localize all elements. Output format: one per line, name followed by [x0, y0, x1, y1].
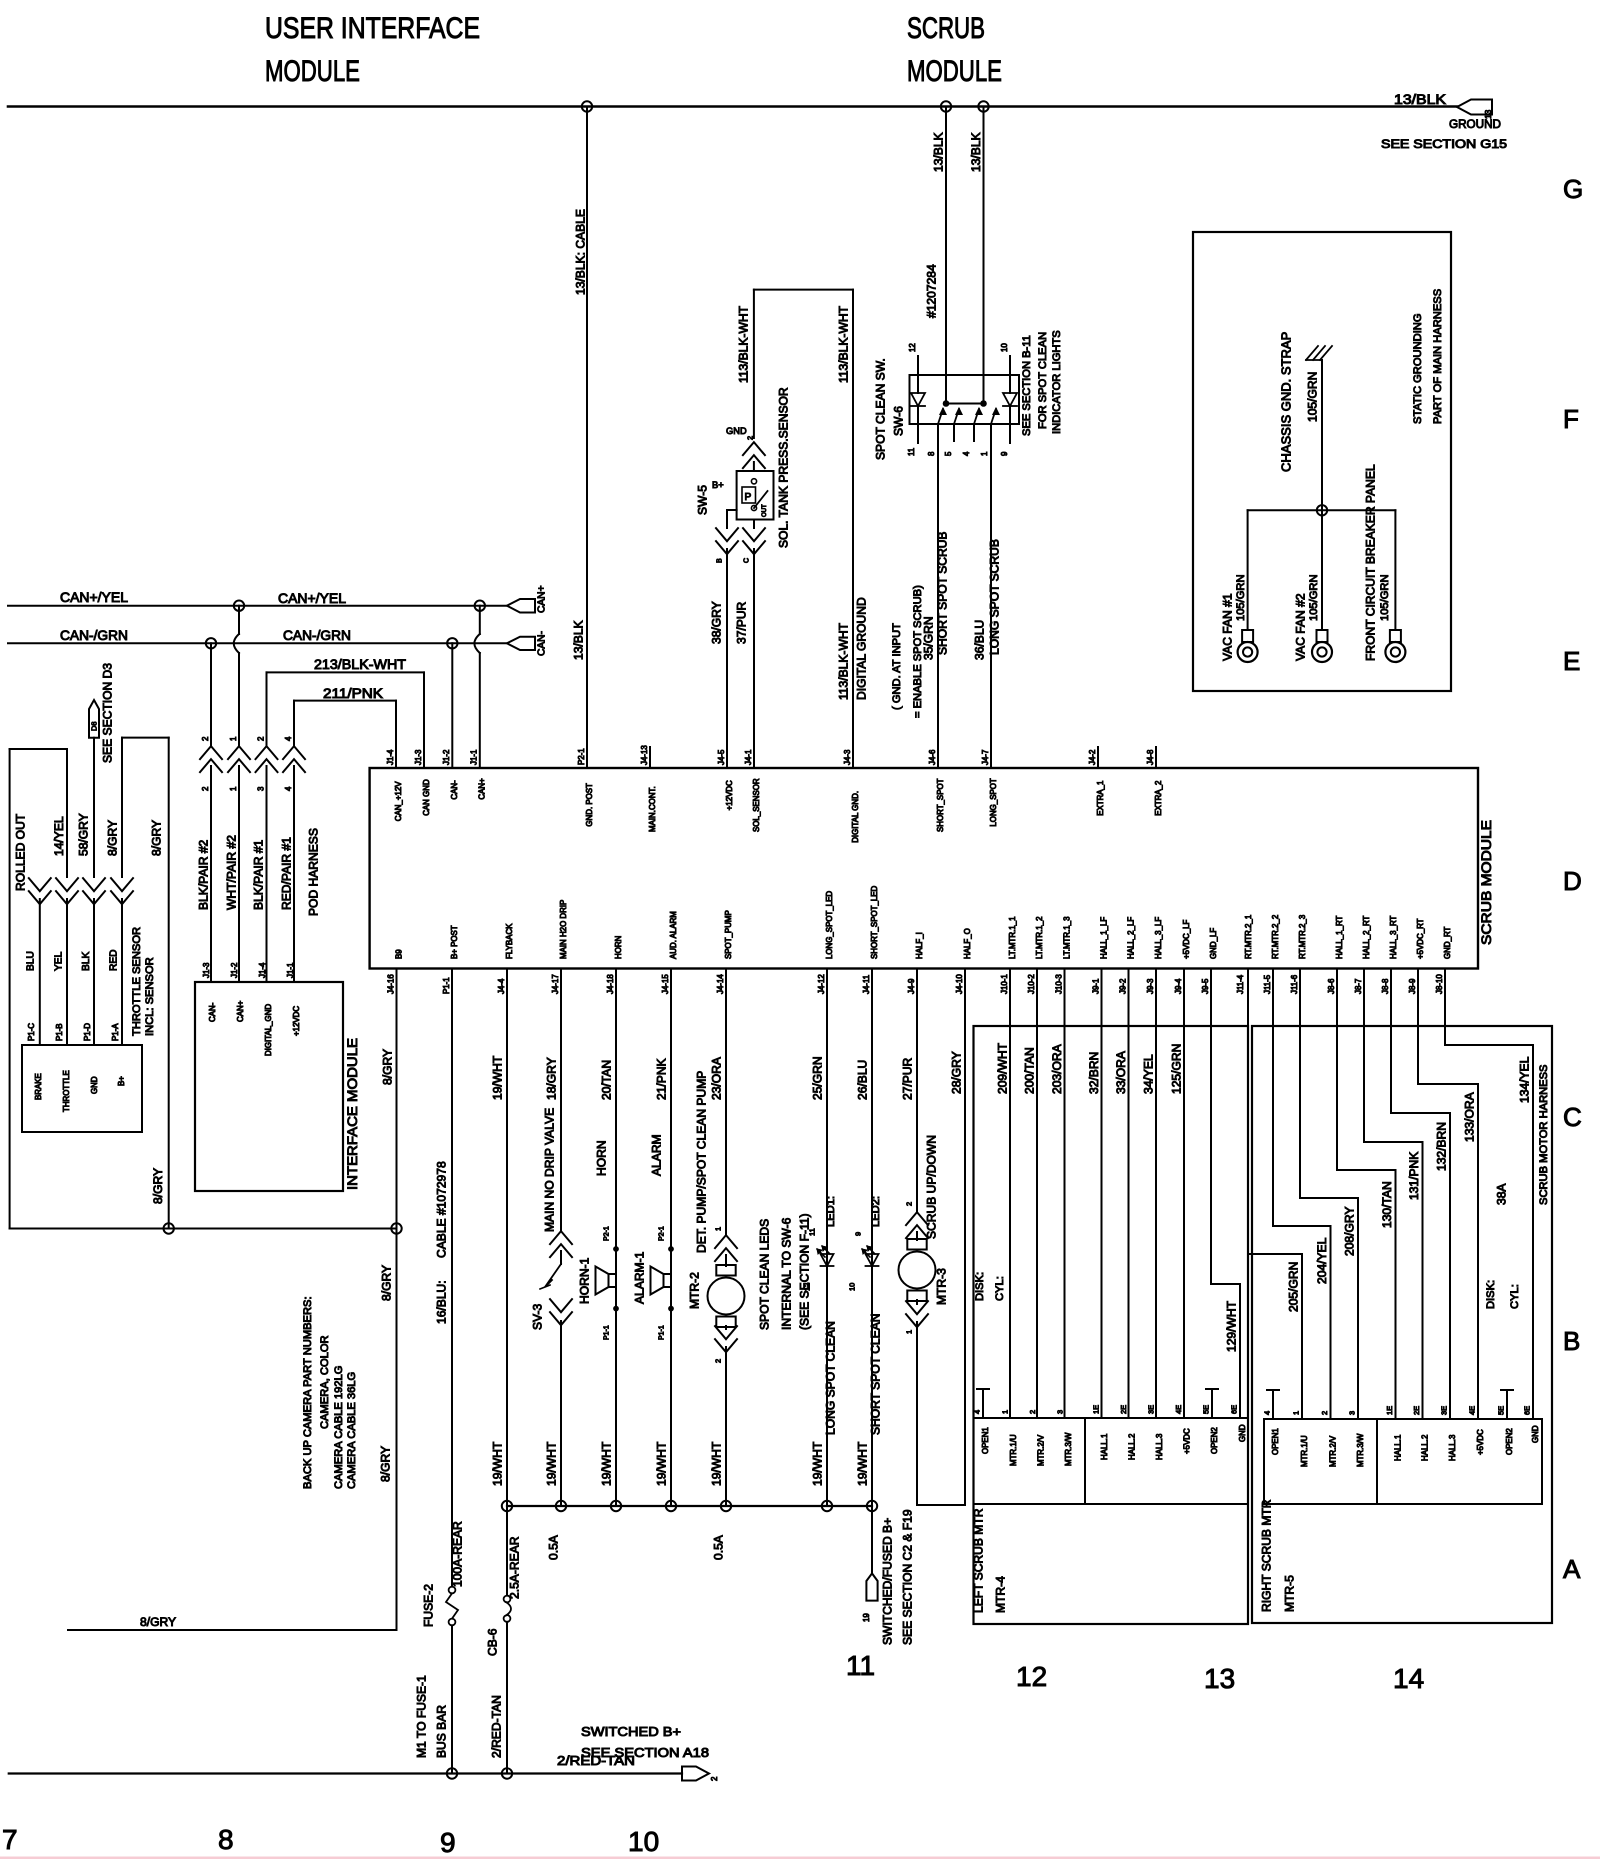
junction fused bus x507: [502, 1501, 512, 1511]
svg-text:SEE SECTION B-11: SEE SECTION B-11: [1021, 335, 1033, 436]
svg-text:CAN-/GRN: CAN-/GRN: [60, 627, 128, 643]
svg-text:SHORT_SPOT_LED: SHORT_SPOT_LED: [870, 885, 879, 959]
junction bottom bus at FUSE-2: [447, 1768, 457, 1778]
wire 37/PUR from SW-5 pin C to J4-1: [734, 520, 765, 769]
svg-text:13/BLK: 13/BLK: [571, 620, 585, 660]
svg-text:J4-17: J4-17: [551, 974, 560, 994]
svg-text:OPEN1: OPEN1: [1271, 1428, 1280, 1455]
wire 8/GRY horizontal run: [10, 1228, 397, 1230]
svg-text:J4-2: J4-2: [1088, 750, 1097, 765]
svg-text:LONG_SPOT: LONG_SPOT: [989, 778, 998, 826]
svg-text:BLK/PAIR #1: BLK/PAIR #1: [251, 839, 265, 910]
svg-text:8/GRY: 8/GRY: [380, 1049, 394, 1085]
svg-text:CAMERA CABLE 36LG: CAMERA CABLE 36LG: [346, 1372, 358, 1489]
svg-text:( GND. AT INPUT: ( GND. AT INPUT: [891, 623, 903, 710]
svg-text:113/BLK-WHT: 113/BLK-WHT: [836, 622, 850, 700]
svg-text:19: 19: [862, 1613, 871, 1622]
wire 132/BRN: [1391, 969, 1450, 1420]
svg-text:CAN_+12V: CAN_+12V: [394, 781, 403, 822]
svg-text:B+ POST: B+ POST: [450, 925, 459, 959]
svg-text:4E: 4E: [1174, 1405, 1183, 1414]
svg-text:8/GRY: 8/GRY: [379, 1265, 393, 1301]
wire CAN+/YEL: [8, 589, 507, 606]
wire BLK/PAIR #1 to interface module J1-4: [251, 672, 277, 982]
svg-text:LONG SPOT CLEAN: LONG SPOT CLEAN: [823, 1321, 837, 1435]
svg-text:OPEN2: OPEN2: [1210, 1427, 1219, 1454]
svg-text:16/BLU:: 16/BLU:: [434, 1280, 448, 1324]
switch SW-5 SOL. TANK PRESS.SENSOR: [695, 387, 790, 548]
terminal VAC FAN #2 105/GRN: [1293, 510, 1332, 662]
connector terminal CAN-: [507, 631, 548, 656]
wire 204/YEL: [1273, 969, 1331, 1420]
svg-text:3: 3: [256, 786, 265, 791]
svg-text:213/BLK-WHT: 213/BLK-WHT: [314, 656, 406, 672]
svg-text:RED/PAIR #1: RED/PAIR #1: [279, 837, 293, 910]
svg-text:J8-7: J8-7: [1354, 979, 1363, 994]
svg-text:+12VDC: +12VDC: [725, 780, 734, 810]
svg-text:GND: GND: [1238, 1424, 1247, 1442]
svg-text:8/GRY: 8/GRY: [149, 820, 163, 856]
svg-text:FUSE-2: FUSE-2: [421, 1584, 435, 1627]
wire BLU ROLLED OUT to throttle sensor P1-C: [13, 813, 50, 1045]
terminal FRONT CIRCUIT BREAKER PANEL 105/GRN: [1363, 464, 1405, 662]
svg-text:P1-1: P1-1: [659, 1325, 666, 1340]
junction fused bus x872: [867, 1501, 877, 1511]
svg-text:4: 4: [962, 451, 971, 456]
wire 13/BLK top ground bus: [8, 105, 1457, 108]
svg-text:4: 4: [284, 736, 293, 741]
svg-text:RT.MTR.2_2: RT.MTR.2_2: [1271, 915, 1280, 959]
svg-text:FRONT CIRCUIT BREAKER PANEL: FRONT CIRCUIT BREAKER PANEL: [1363, 464, 1377, 661]
svg-text:5E: 5E: [1497, 1406, 1506, 1415]
svg-text:100A-REAR: 100A-REAR: [450, 1521, 464, 1587]
wire left vertical to 8/GRY net: [9, 749, 11, 1229]
svg-text:J9-5: J9-5: [1201, 978, 1210, 994]
svg-text:OPEN2: OPEN2: [1505, 1428, 1514, 1455]
svg-text:HALL.2: HALL.2: [1127, 1434, 1136, 1460]
svg-text:HALL_1_RT: HALL_1_RT: [1335, 915, 1344, 959]
junction on ground bus at 13/BLK right: [978, 101, 988, 111]
svg-text:THROTTLE: THROTTLE: [62, 1070, 71, 1112]
svg-text:BLU: BLU: [25, 951, 36, 971]
svg-text:MTR-3: MTR-3: [934, 1268, 948, 1305]
scan artifact pink line at bottom: [0, 1857, 1600, 1860]
svg-text:MTR.2/V: MTR.2/V: [1328, 1435, 1337, 1467]
svg-text:23/ORA: 23/ORA: [709, 1056, 723, 1100]
svg-text:9: 9: [440, 1827, 456, 1858]
svg-text:5E: 5E: [1202, 1405, 1211, 1414]
svg-text:13/BLK: CABLE: 13/BLK: CABLE: [573, 209, 587, 295]
svg-text:1: 1: [1292, 1411, 1301, 1415]
motor MTR-2 DET. PUMP/SPOT CLEAN PUMP on wire 23/ORA J4-14: [687, 969, 744, 1507]
svg-text:J10-2: J10-2: [1027, 974, 1036, 994]
stub pin J4-8 EXTRA_2: [1155, 747, 1157, 768]
svg-text:21/PNK: 21/PNK: [654, 1058, 668, 1100]
svg-text:GND: GND: [1531, 1425, 1540, 1443]
svg-text:13/BLK: 13/BLK: [1394, 91, 1447, 107]
junction bottom bus at CB-6: [502, 1768, 512, 1778]
svg-text:CAMERA, COLOR: CAMERA, COLOR: [319, 1335, 331, 1429]
wire 14/YEL to throttle sensor P1-B: [10, 749, 78, 1045]
svg-text:J1-4: J1-4: [386, 749, 395, 765]
svg-text:F: F: [1563, 404, 1579, 434]
svg-text:SEE SECTION D3: SEE SECTION D3: [100, 663, 114, 763]
svg-text:9: 9: [1000, 451, 1009, 456]
svg-text:SHORT_SPOT: SHORT_SPOT: [936, 778, 945, 832]
svg-text:3E: 3E: [1440, 1406, 1449, 1415]
svg-text:11: 11: [907, 447, 916, 456]
svg-text:2: 2: [710, 1777, 719, 1781]
svg-text:GND: GND: [90, 1076, 99, 1094]
svg-text:204/YEL: 204/YEL: [1315, 1237, 1329, 1284]
svg-text:J4-12: J4-12: [817, 974, 826, 994]
svg-text:SCRUB MODULE: SCRUB MODULE: [1478, 820, 1494, 945]
wire RED/PAIR #1 to interface module J1-1: [279, 701, 305, 982]
svg-text:205/GRN: 205/GRN: [1286, 1262, 1300, 1312]
svg-text:200/TAN: 200/TAN: [1022, 1047, 1036, 1094]
svg-text:SWITCHED/FUSED B+: SWITCHED/FUSED B+: [880, 1518, 894, 1645]
svg-text:GND_LF: GND_LF: [1209, 928, 1218, 959]
svg-text:DET. PUMP/SPOT CLEAN PUMP: DET. PUMP/SPOT CLEAN PUMP: [694, 1071, 708, 1253]
wire 208/GRY: [1300, 969, 1358, 1420]
svg-text:P1-B: P1-B: [55, 1023, 64, 1041]
svg-text:132/BRN: 132/BRN: [1434, 1122, 1448, 1171]
svg-text:MTR.1/U: MTR.1/U: [1300, 1435, 1309, 1467]
svg-text:MAIN H2O DRIP: MAIN H2O DRIP: [559, 900, 568, 959]
valve SV-3 MAIN NO DRIP VALVE on wire 18/GRY J4-17: [530, 969, 572, 1507]
svg-text:RT.MTR.2_3: RT.MTR.2_3: [1298, 914, 1307, 959]
wire 36/BLU LONG SPOT SCRUB from SW-6 pin 1 to J4-7: [972, 424, 1001, 768]
svg-text:8/GRY: 8/GRY: [140, 1615, 176, 1629]
alarm ALARM-1 on wire 21/PNK J4-15: [632, 969, 673, 1507]
svg-text:4: 4: [973, 1410, 982, 1414]
svg-text:J9-3: J9-3: [1146, 978, 1155, 994]
svg-text:CAN-: CAN-: [537, 631, 548, 656]
svg-text:12: 12: [1016, 1661, 1047, 1692]
svg-text:SOL. TANK PRESS.SENSOR: SOL. TANK PRESS.SENSOR: [776, 387, 790, 548]
svg-text:CB-6: CB-6: [485, 1628, 499, 1656]
svg-text:32/BRN: 32/BRN: [1087, 1052, 1101, 1094]
svg-text:36/BLU: 36/BLU: [972, 620, 986, 660]
svg-text:2: 2: [1320, 1411, 1329, 1415]
connector D8 SEE SECTION D3: [89, 663, 114, 763]
svg-text:133/ORA: 133/ORA: [1462, 1091, 1476, 1142]
svg-text:J1-2: J1-2: [230, 963, 239, 978]
svg-text:P1-D: P1-D: [83, 1023, 92, 1041]
box throttle sensor THROTTLE SENSOR INCL: SENSOR: [22, 927, 156, 1132]
scrub module bottom pin labels: [386, 885, 1452, 994]
wire 129/WHT GND_LF step to MTR-4 GND: [1211, 969, 1240, 1419]
svg-text:MTR.3/W: MTR.3/W: [1356, 1433, 1365, 1467]
svg-text:DISK:: DISK:: [1485, 1280, 1497, 1309]
wire 28/GRY HALF_O J4-10: [949, 969, 965, 1506]
svg-text:MAIN.CONT.: MAIN.CONT.: [648, 786, 657, 832]
svg-text:J9-4: J9-4: [1174, 978, 1183, 994]
svg-text:INTERFACE MODULE: INTERFACE MODULE: [344, 1038, 360, 1190]
svg-text:C: C: [744, 558, 751, 563]
svg-text:BLK/PAIR #2: BLK/PAIR #2: [196, 839, 210, 910]
svg-text:11: 11: [846, 1650, 875, 1681]
wire 113/BLK-WHT loop top: [754, 289, 853, 291]
module INTERFACE MODULE: [195, 962, 360, 1191]
svg-text:MTR-5: MTR-5: [1282, 1575, 1296, 1612]
svg-text:CAN+: CAN+: [236, 1000, 245, 1022]
wire 113/BLK-WHT left leg to SW-5: [736, 290, 754, 438]
svg-text:DIGITAL GND.: DIGITAL GND.: [851, 791, 860, 843]
svg-text:19/WHT: 19/WHT: [490, 1055, 504, 1100]
svg-text:SEE SECTION G15: SEE SECTION G15: [1381, 137, 1507, 151]
wire 8/GRY from scrub module J4-16 down to bottom: [378, 969, 396, 1631]
svg-text:INCL: SENSOR: INCL: SENSOR: [144, 957, 156, 1036]
title USER INTERFACE MODULE: [265, 12, 480, 88]
svg-text:VAC FAN #2: VAC FAN #2: [1293, 593, 1307, 661]
junction fused bus x671: [666, 1501, 676, 1511]
svg-text:P2-1: P2-1: [577, 748, 586, 765]
label SPOT CLEAN SW. SW-6: [873, 358, 905, 460]
svg-text:J4-8: J4-8: [1146, 749, 1155, 765]
wire 130/TAN: [1337, 969, 1396, 1420]
svg-text:J4-13: J4-13: [640, 745, 649, 765]
wire 134/YEL: [1445, 969, 1533, 1420]
svg-text:POD HARNESS: POD HARNESS: [306, 828, 320, 916]
svg-text:DIGITAL GROUND: DIGITAL GROUND: [854, 597, 868, 700]
svg-text:SCRUB: SCRUB: [907, 12, 985, 45]
svg-text:J4-7: J4-7: [981, 750, 990, 765]
svg-text:SOL_SENSOR: SOL_SENSOR: [752, 778, 761, 832]
svg-text:USER INTERFACE: USER INTERFACE: [265, 12, 480, 45]
junction fused bus x561: [556, 1501, 566, 1511]
svg-text:113/BLK-WHT: 113/BLK-WHT: [836, 305, 850, 383]
led LED2 SHORT SPOT CLEAN on wire 26/BLU J4-11: [848, 969, 883, 1507]
svg-text:B9: B9: [394, 949, 403, 959]
connector chevrons above SW-5 with GND 2: [726, 426, 765, 471]
junction fused bus x726: [721, 1501, 731, 1511]
svg-text:J4-3: J4-3: [843, 749, 852, 765]
svg-text:RED: RED: [109, 949, 120, 971]
svg-text:6E: 6E: [1230, 1405, 1239, 1414]
svg-text:OPEN1: OPEN1: [981, 1427, 990, 1454]
svg-text:CAN+: CAN+: [537, 585, 548, 613]
svg-text:ROLLED OUT: ROLLED OUT: [13, 813, 27, 891]
svg-text:2.5A-REAR: 2.5A-REAR: [507, 1536, 521, 1599]
svg-text:VAC FAN #1: VAC FAN #1: [1220, 593, 1234, 661]
svg-text:J8-9: J8-9: [1408, 978, 1417, 994]
connector terminal CAN+: [507, 585, 548, 613]
svg-text:CYL:: CYL:: [994, 1276, 1006, 1301]
svg-text:B: B: [1563, 1326, 1580, 1356]
svg-text:LONG SPOT SCRUB: LONG SPOT SCRUB: [987, 539, 1001, 655]
svg-text:C: C: [1563, 1102, 1582, 1132]
svg-text:CABLE #1072978: CABLE #1072978: [434, 1161, 448, 1258]
svg-text:OUT: OUT: [762, 504, 768, 517]
svg-text:HALL_3_RT: HALL_3_RT: [1389, 915, 1398, 959]
svg-text:7: 7: [2, 1824, 18, 1855]
svg-text:5: 5: [944, 451, 953, 456]
svg-text:2: 2: [1028, 1410, 1037, 1414]
wire 19/WHT fused B+ bus: [507, 1505, 872, 1507]
svg-text:J4-1: J4-1: [744, 749, 753, 765]
svg-text:2: 2: [201, 787, 210, 791]
svg-text:HORN-1: HORN-1: [577, 1257, 591, 1304]
svg-text:HALL_2_LF: HALL_2_LF: [1126, 917, 1135, 959]
wire 211/PNK from RED/PAIR #1 to scrub module J1-4: [294, 685, 396, 768]
wire CAN+ drop to J1-1 with hop: [474, 606, 479, 768]
svg-text:DISK:: DISK:: [974, 1272, 986, 1301]
junction 8/GRY at x396: [391, 1223, 401, 1233]
svg-text:B+: B+: [117, 1076, 126, 1086]
svg-text:DIGITAL_GND: DIGITAL_GND: [264, 1004, 273, 1056]
svg-text:J4-14: J4-14: [716, 974, 725, 994]
svg-text:D8: D8: [90, 721, 99, 731]
svg-text:SCRUB MOTOR HARNESS: SCRUB MOTOR HARNESS: [1538, 1064, 1550, 1205]
svg-text:209/WHT: 209/WHT: [995, 1042, 1009, 1094]
svg-text:26/BLU: 26/BLU: [855, 1060, 869, 1100]
motor MTR-3 SCRUB UP/DOWN on wire 27/PUR J4-9: [899, 969, 966, 1506]
svg-text:J9-2: J9-2: [1118, 979, 1127, 994]
svg-text:33/ORA: 33/ORA: [1114, 1050, 1128, 1094]
svg-text:19/WHT: 19/WHT: [855, 1441, 869, 1486]
svg-text:129/WHT: 129/WHT: [1224, 1300, 1238, 1352]
svg-text:LT.MTR.1_3: LT.MTR.1_3: [1062, 916, 1071, 959]
svg-text:19/WHT: 19/WHT: [654, 1441, 668, 1486]
svg-text:J1-1: J1-1: [286, 962, 295, 978]
svg-text:12: 12: [908, 343, 917, 352]
junction chassis ground: [1317, 505, 1327, 515]
wire 38/GRY from SW-5 pin B to J4-5: [709, 510, 738, 768]
svg-text:4E: 4E: [1468, 1406, 1477, 1415]
svg-text:9: 9: [854, 1232, 863, 1236]
title SCRUB MODULE: [907, 12, 1002, 88]
svg-text:E: E: [1563, 646, 1580, 676]
svg-text:YEL: YEL: [53, 951, 64, 971]
wire 13/BLK: CABLE from ground bus to scrub module P2-1: [571, 107, 587, 769]
svg-text:SEE SECTION C2 & F19: SEE SECTION C2 & F19: [900, 1509, 914, 1645]
svg-text:BRAKE: BRAKE: [34, 1073, 43, 1100]
wire 16/BLU CABLE #1072978 from P1-1 through FUSE-2 to bus bar: [434, 969, 452, 1587]
wire M1 TO FUSE-1 BUS BAR: [414, 1625, 452, 1773]
svg-text:P1-1: P1-1: [604, 1325, 611, 1340]
svg-text:13/BLK: 13/BLK: [931, 132, 945, 172]
svg-text:SCRUB UP/DOWN: SCRUB UP/DOWN: [924, 1135, 938, 1239]
svg-text:P2-1: P2-1: [659, 1226, 666, 1241]
svg-text:GND: GND: [726, 426, 747, 436]
svg-text:2: 2: [256, 737, 265, 741]
svg-text:19/WHT: 19/WHT: [709, 1441, 723, 1486]
wire 35/GRN SHORT SPOT SCRUB from SW-6 pin 8 to J4-6: [921, 424, 949, 768]
svg-text:GND_RT: GND_RT: [1443, 926, 1452, 959]
svg-text:113/BLK-WHT: 113/BLK-WHT: [736, 305, 750, 383]
svg-text:INDICATOR LIGHTS: INDICATOR LIGHTS: [1051, 330, 1063, 434]
svg-text:EXTRA_2: EXTRA_2: [1154, 781, 1163, 816]
svg-text:MODULE: MODULE: [907, 55, 1002, 88]
svg-text:105/GRN: 105/GRN: [1305, 372, 1319, 422]
svg-text:J4-16: J4-16: [386, 974, 395, 994]
connector terminal 13 to ground, SEE SECTION G15: [1381, 91, 1507, 151]
svg-text:STATIC GROUNDING: STATIC GROUNDING: [1412, 313, 1424, 424]
svg-text:1E: 1E: [1092, 1405, 1101, 1414]
svg-text:CAN-: CAN-: [450, 780, 459, 800]
junction fused bus x827: [822, 1501, 832, 1511]
svg-text:FLYBACK: FLYBACK: [505, 923, 514, 959]
wire 2/RED-TAN bottom bus: [9, 1753, 682, 1774]
svg-text:8/GRY: 8/GRY: [151, 1168, 165, 1204]
svg-text:SHORT SPOT CLEAN: SHORT SPOT CLEAN: [868, 1314, 882, 1436]
svg-text:MTR.2/V: MTR.2/V: [1036, 1434, 1045, 1466]
note GND. AT INPUT = ENABLE SPOT SCRUB: [891, 585, 924, 718]
svg-text:CAN GND: CAN GND: [422, 779, 431, 816]
svg-text:HALL_2_RT: HALL_2_RT: [1362, 915, 1371, 959]
led LED1 LONG SPOT CLEAN on wire 25/GRN J4-12: [803, 969, 838, 1507]
svg-text:1: 1: [980, 451, 989, 456]
svg-text:1: 1: [229, 736, 238, 741]
svg-text:HALF_O: HALF_O: [963, 928, 972, 959]
svg-text:J8-8: J8-8: [1381, 978, 1390, 994]
svg-text:38A: 38A: [1494, 1183, 1508, 1205]
svg-text:J4-15: J4-15: [661, 974, 670, 994]
wire 13/BLK to SW-6 pin 8: [931, 107, 946, 376]
svg-text:CAN-/GRN: CAN-/GRN: [283, 627, 351, 643]
junction CAN- to scrub module: [447, 638, 457, 648]
svg-text:J11-6: J11-6: [1290, 974, 1299, 994]
svg-text:PART OF MAIN HARNESS: PART OF MAIN HARNESS: [1432, 289, 1444, 424]
svg-text:131/PNK: 131/PNK: [1407, 1152, 1421, 1200]
svg-text:J10-1: J10-1: [1000, 974, 1009, 994]
svg-text:SPOT_PUMP: SPOT_PUMP: [724, 910, 733, 959]
svg-text:125/GRN: 125/GRN: [1169, 1044, 1183, 1094]
svg-text:P2-1: P2-1: [604, 1226, 611, 1241]
svg-text:HALL.1: HALL.1: [1100, 1433, 1109, 1460]
svg-text:MAIN NO DRIP VALVE: MAIN NO DRIP VALVE: [542, 1108, 556, 1232]
svg-text:8/GRY: 8/GRY: [105, 820, 119, 856]
svg-text:CAN+: CAN+: [478, 778, 487, 800]
svg-text:RIGHT SCRUB MTR: RIGHT SCRUB MTR: [1259, 1499, 1273, 1612]
svg-text:LED2:: LED2:: [870, 1196, 882, 1227]
svg-text:2/RED-TAN: 2/RED-TAN: [489, 1695, 503, 1758]
svg-text:CAMERA CABLE 192LG: CAMERA CABLE 192LG: [333, 1366, 345, 1489]
svg-text:LONG_SPOT_LED: LONG_SPOT_LED: [825, 891, 834, 959]
svg-text:J9-1: J9-1: [1091, 978, 1100, 994]
svg-text:2: 2: [746, 436, 755, 440]
svg-text:4: 4: [284, 786, 293, 791]
svg-text:+12VDC: +12VDC: [292, 1006, 301, 1036]
svg-text:LT.MTR.1_1: LT.MTR.1_1: [1008, 916, 1017, 959]
svg-text:HALL_1_LF: HALL_1_LF: [1099, 917, 1108, 959]
svg-text:J1-4: J1-4: [258, 962, 267, 978]
svg-text:MTR-4: MTR-4: [993, 1576, 1007, 1613]
wire 19/WHT FLYBACK J4-4 to fused bus: [490, 969, 507, 1507]
switch SW-6 SPOT CLEAN SW.: [907, 343, 1019, 456]
label SEE SECTION B-11 FOR SPOT CLEAN INDICATOR LIGHTS: [1021, 330, 1063, 436]
svg-text:8: 8: [218, 1824, 234, 1855]
svg-text:11: 11: [808, 1228, 817, 1236]
svg-text:3: 3: [1056, 1410, 1065, 1414]
svg-text:2: 2: [714, 1359, 723, 1363]
svg-text:MTR.1/U: MTR.1/U: [1009, 1434, 1018, 1466]
note BACK UP CAMERA PART NUMBERS: [302, 1296, 358, 1489]
svg-text:CHASSIS GND. STRAP: CHASSIS GND. STRAP: [1279, 332, 1294, 472]
svg-text:13/BLK: 13/BLK: [969, 132, 983, 172]
grid row letters G F E D C B A: [1563, 174, 1583, 1584]
svg-text:#1207284: #1207284: [924, 264, 938, 318]
svg-text:SV-3: SV-3: [530, 1304, 544, 1330]
svg-text:HALL_3_LF: HALL_3_LF: [1154, 917, 1163, 959]
junction 8/GRY at x168: [164, 1223, 174, 1233]
wire CAN- drop to J1-2: [451, 643, 453, 768]
svg-text:3: 3: [1348, 1411, 1357, 1415]
fuse FUSE-2 100A-REAR: [421, 1521, 464, 1627]
junction CAN+ to scrub module: [475, 601, 485, 611]
wire 13/BLK to SW-6 pin 2: [969, 107, 984, 376]
